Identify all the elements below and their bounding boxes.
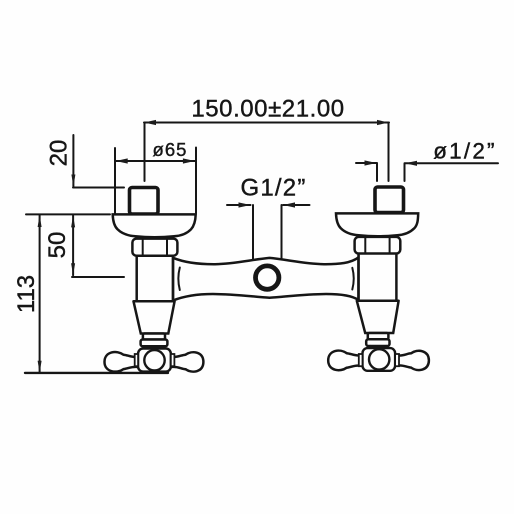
right valve body — [359, 254, 397, 301]
left escutcheon flange — [113, 214, 196, 237]
arrowhead right stub left — [365, 160, 377, 165]
svg-text:50: 50 — [44, 232, 71, 259]
arrow line right of G1/2 opening — [283, 204, 310, 206]
extension line right stub left edge — [376, 163, 378, 181]
extension line ø65 left — [114, 148, 116, 213]
reference line wall face — [26, 213, 110, 215]
dimension line 150 — [144, 122, 389, 124]
reference line handle bottom — [25, 372, 168, 374]
left ring small — [143, 334, 165, 340]
dimension line ø65 — [116, 160, 195, 162]
left valve body — [137, 256, 173, 301]
arrowhead 50 top — [71, 215, 75, 227]
dimension line 50 — [72, 215, 74, 275]
extension line G1/2 left — [252, 205, 254, 267]
arrowhead ø1/2 leader — [405, 161, 417, 166]
right ring large — [366, 339, 389, 346]
left handle neck — [146, 346, 163, 349]
right handle right lobe — [398, 351, 429, 370]
left handle left tab — [135, 354, 138, 366]
right hex nut facet lines — [365, 238, 389, 253]
arrow line left of G1/2 opening — [227, 204, 251, 206]
right bonnet taper — [357, 301, 399, 333]
arrowhead 113 bottom — [38, 361, 42, 373]
left inlet stub (square) — [130, 188, 159, 215]
right handle right tab — [395, 354, 399, 366]
right handle left tab — [359, 354, 363, 366]
svg-text:ø1/2”: ø1/2” — [433, 139, 497, 164]
arrowhead left of 150 dim — [144, 120, 156, 125]
extension line left pipe center — [144, 123, 146, 181]
right handle neck — [371, 346, 387, 349]
left ring large — [141, 340, 168, 347]
right escutcheon flange — [336, 213, 418, 236]
left hex nut — [132, 239, 177, 256]
leader line ø1/2 right — [405, 162, 498, 164]
arrowhead 20 bottom — [71, 175, 75, 187]
left handle hub — [138, 349, 171, 372]
extension line G1/2 right — [281, 205, 283, 267]
arrowhead G1/2 left — [239, 202, 251, 207]
left handle center boss — [144, 350, 164, 370]
short arrow line left of right stub — [356, 162, 377, 164]
extension line right stub right edge — [404, 163, 406, 181]
arrowhead 113 top — [38, 215, 42, 227]
arrowhead 50 bottom — [71, 263, 75, 275]
bridge body — [173, 257, 359, 300]
svg-text:G1/2”: G1/2” — [240, 175, 306, 202]
extension line right pipe center — [388, 123, 390, 181]
dimension line 20 — [72, 135, 74, 187]
dimension line 113 — [39, 215, 41, 373]
right ring small — [368, 333, 389, 339]
svg-text:20: 20 — [46, 140, 73, 167]
arrowhead right of 150 dim — [377, 120, 389, 125]
svg-text:113: 113 — [13, 275, 40, 313]
arrowhead right of ø65 dim — [183, 158, 195, 163]
svg-text:150.00±21.00: 150.00±21.00 — [191, 96, 344, 123]
left bonnet taper — [134, 301, 175, 333]
svg-text:ø65: ø65 — [153, 139, 188, 160]
left handle right tab — [171, 354, 175, 366]
right handle hub — [363, 348, 396, 371]
extension line ø65 right — [195, 148, 197, 214]
bridge fillet line left — [178, 268, 179, 291]
left handle left lobe — [104, 352, 136, 372]
left handle right lobe — [173, 352, 204, 371]
central outlet ring G1/2 — [256, 266, 279, 289]
arrowhead left of ø65 dim — [116, 158, 128, 163]
right inlet stub (square) — [375, 187, 404, 213]
reference line pipe axis — [72, 276, 124, 278]
right hex nut — [355, 237, 401, 254]
right handle center boss — [369, 349, 389, 369]
left hex nut facet lines — [143, 240, 167, 256]
arrowhead G1/2 right — [283, 202, 295, 207]
reference line stub top — [73, 187, 124, 189]
right handle left lobe — [328, 351, 359, 371]
bridge fillet line right — [352, 268, 353, 290]
